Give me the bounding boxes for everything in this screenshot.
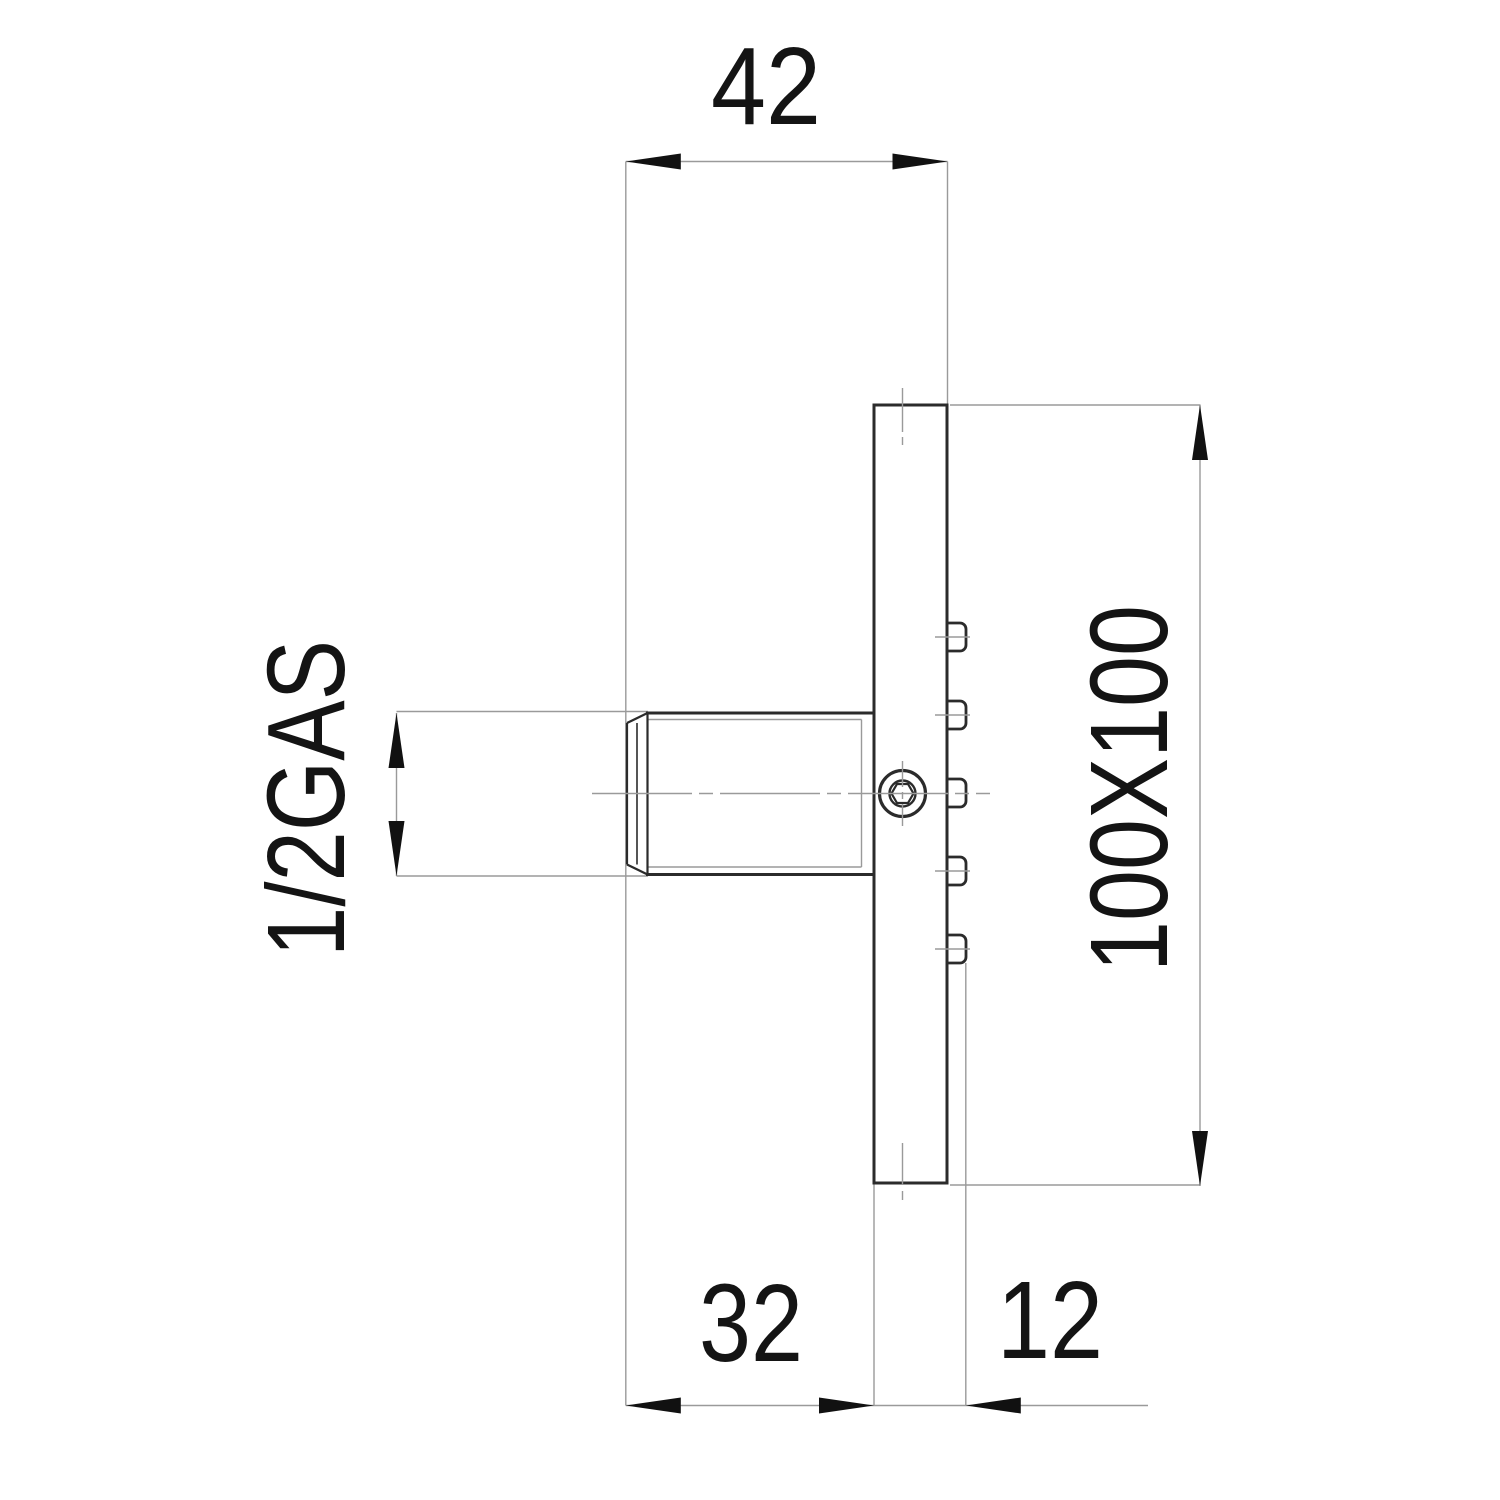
svg-text:32: 32 bbox=[699, 1262, 803, 1385]
svg-text:12: 12 bbox=[997, 1259, 1103, 1382]
svg-text:1/2GAS: 1/2GAS bbox=[245, 640, 368, 957]
svg-text:100X100: 100X100 bbox=[1068, 605, 1191, 972]
svg-text:42: 42 bbox=[711, 25, 821, 148]
